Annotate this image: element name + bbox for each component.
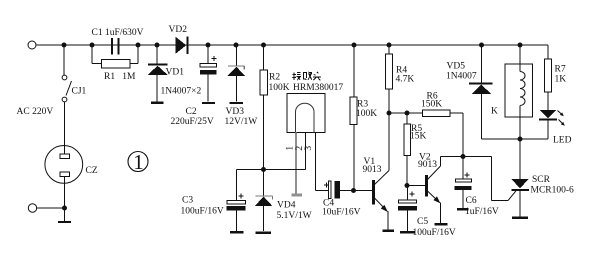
diode VD1 [148,45,168,103]
svg-text:VD1: VD1 [166,68,185,78]
capacitor C5 [398,186,417,233]
svg-text:C3: C3 [182,196,193,206]
receiver pin 1 (ground, grey) [292,133,303,196]
svg-text:VD3: VD3 [226,107,245,117]
IR receiver dome [296,103,315,132]
svg-text:220uF/25V: 220uF/25V [171,117,214,127]
svg-text:100uF/16V: 100uF/16V [181,207,224,217]
LED indicator [539,110,565,139]
terminal: AC live input [28,41,36,49]
svg-text:MCR100-6: MCR100-6 [531,186,575,196]
svg-text:150K: 150K [421,100,442,110]
svg-text:9013: 9013 [418,160,437,170]
node: R2/C3/VD4/receiver junction [261,167,266,172]
svg-text:VD4: VD4 [277,201,296,211]
wire: bottom rail (relay branch) [482,138,549,140]
resistor R2 [260,45,268,170]
capacitor C4 [324,181,354,198]
node: rail junction dots [62,43,523,48]
svg-text:15K: 15K [410,132,427,142]
wire: gate drive [463,157,516,201]
wire: junction to C3 [237,170,264,201]
svg-text:R7: R7 [555,65,566,75]
svg-text:C2: C2 [186,107,197,117]
svg-text:C6: C6 [466,196,477,206]
wire: top rail [37,44,549,46]
svg-text:SCR: SCR [532,175,551,185]
svg-text:5.1V/1W: 5.1V/1W [277,211,312,221]
node: R6/V2 collector/C6/gate junction [461,154,466,159]
diode VD2 [175,37,187,55]
svg-text:C5: C5 [417,217,428,227]
svg-text:VD2: VD2 [169,25,188,35]
svg-text:CZ: CZ [86,166,98,176]
receiver pin 3 wire [316,133,329,191]
svg-text:CJ1: CJ1 [72,87,87,97]
svg-text:1: 1 [133,150,144,174]
switch CJ1 [62,45,71,146]
svg-text:12V/1W: 12V/1W [225,117,258,127]
relay K box [505,64,533,117]
svg-text:R1 1M: R1 1M [104,72,136,82]
svg-text:1N4007: 1N4007 [446,72,477,82]
svg-text:K: K [491,107,498,117]
svg-text:100uF/16V: 100uF/16V [413,228,456,238]
transistor V2 [407,157,463,225]
capacitor C6 [455,157,472,210]
svg-text:LED: LED [553,136,572,146]
resistor R4 [386,45,393,113]
node: neutral junction [62,206,67,211]
ground: neutral stub [58,208,71,222]
node: V1 base junction [351,188,356,193]
wire: collector node to R6 [389,112,423,114]
svg-text:100K: 100K [356,109,377,119]
node: SCR anode / relay bottom [518,137,523,142]
svg-text:100K: 100K [269,83,290,93]
node: R5 top [405,111,410,116]
zener VD4 [255,170,273,233]
resistor R5 [404,113,411,186]
svg-text:R3: R3 [357,100,368,110]
resistor R3 [350,45,357,191]
svg-text:VD5: VD5 [447,62,466,72]
socket CZ [45,146,83,209]
resistor R6 [423,110,464,157]
svg-text:1uF/16V: 1uF/16V [465,207,499,217]
figure number 1 [128,150,148,174]
svg-text:1N4007×2: 1N4007×2 [161,87,202,97]
svg-text:1K: 1K [555,75,567,85]
zener VD3 [227,45,245,103]
resistor R7 [545,45,552,110]
relay K coil [520,45,525,139]
receiver pin numbers 1 2 3 (rotated) [286,146,315,151]
capacitor C2 [200,45,217,103]
thyristor SCR [512,139,530,218]
svg-text:4.7K: 4.7K [396,75,415,85]
resistor R1 [92,45,138,68]
node: V2 base junction [405,183,410,188]
wire: neutral to CZ [37,207,65,209]
label 接收头 (receiver head) [292,72,321,80]
receiver pin 2 wire [264,133,306,170]
transistor V1 [354,113,395,231]
node: V1 collector node [387,111,392,116]
svg-text:C1 1uF/630V: C1 1uF/630V [92,28,144,38]
svg-text:R2: R2 [269,73,280,83]
svg-text:9013: 9013 [363,165,382,175]
svg-text:AC 220V: AC 220V [17,107,54,117]
terminal: AC neutral input [28,204,36,212]
capacitor C1 [92,38,138,55]
svg-text:10uF/16V: 10uF/16V [322,208,361,218]
capacitor C3 [227,194,246,233]
svg-text:HRM380017: HRM380017 [293,83,343,93]
IR receiver module box [287,94,325,133]
diode VD5 [469,45,493,139]
